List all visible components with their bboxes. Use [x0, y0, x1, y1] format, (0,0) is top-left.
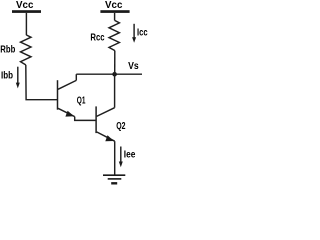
- junction node Vs dot: [112, 72, 117, 77]
- svg-text:Vcc: Vcc: [105, 0, 123, 11]
- current arrow Ibb: [17, 67, 19, 84]
- svg-text:Iee: Iee: [124, 149, 136, 160]
- svg-text:Rcc: Rcc: [90, 33, 105, 44]
- resistor R2 Rcc: [109, 20, 119, 50]
- ground: [103, 175, 125, 183]
- transistor Q2: [96, 106, 115, 141]
- svg-text:Icc: Icc: [137, 28, 148, 39]
- power rail Vcc (left) bar: [12, 10, 41, 13]
- wire node Vs down to Q2 collector: [114, 74, 116, 108]
- wire Vcc-left bar to Rbb top: [25, 13, 27, 35]
- wire Q2 emitter to ground: [114, 141, 116, 175]
- current arrow Icc: [133, 24, 135, 38]
- resistor R1 Rbb: [21, 35, 32, 65]
- wire node Vs horizontal: [76, 73, 142, 75]
- wire Vcc-right bar to Rcc top: [114, 13, 116, 21]
- wire Q1 collector riser: [75, 74, 77, 80]
- wire Rbb bottom to Q1 base: [26, 65, 58, 100]
- svg-text:Rbb: Rbb: [0, 45, 15, 56]
- svg-text:Q1: Q1: [77, 96, 86, 107]
- svg-text:Ibb: Ibb: [1, 71, 13, 82]
- wire Rcc bottom to node Vs: [114, 51, 116, 75]
- transistor Q1: [58, 80, 77, 116]
- svg-text:Q2: Q2: [116, 121, 126, 132]
- wire Q1 emitter to Q2 base: [75, 117, 96, 121]
- current arrow Iee: [120, 147, 122, 163]
- svg-text:Vs: Vs: [128, 61, 139, 72]
- power rail Vcc (right) bar: [100, 10, 129, 13]
- svg-text:Vcc: Vcc: [16, 0, 34, 11]
